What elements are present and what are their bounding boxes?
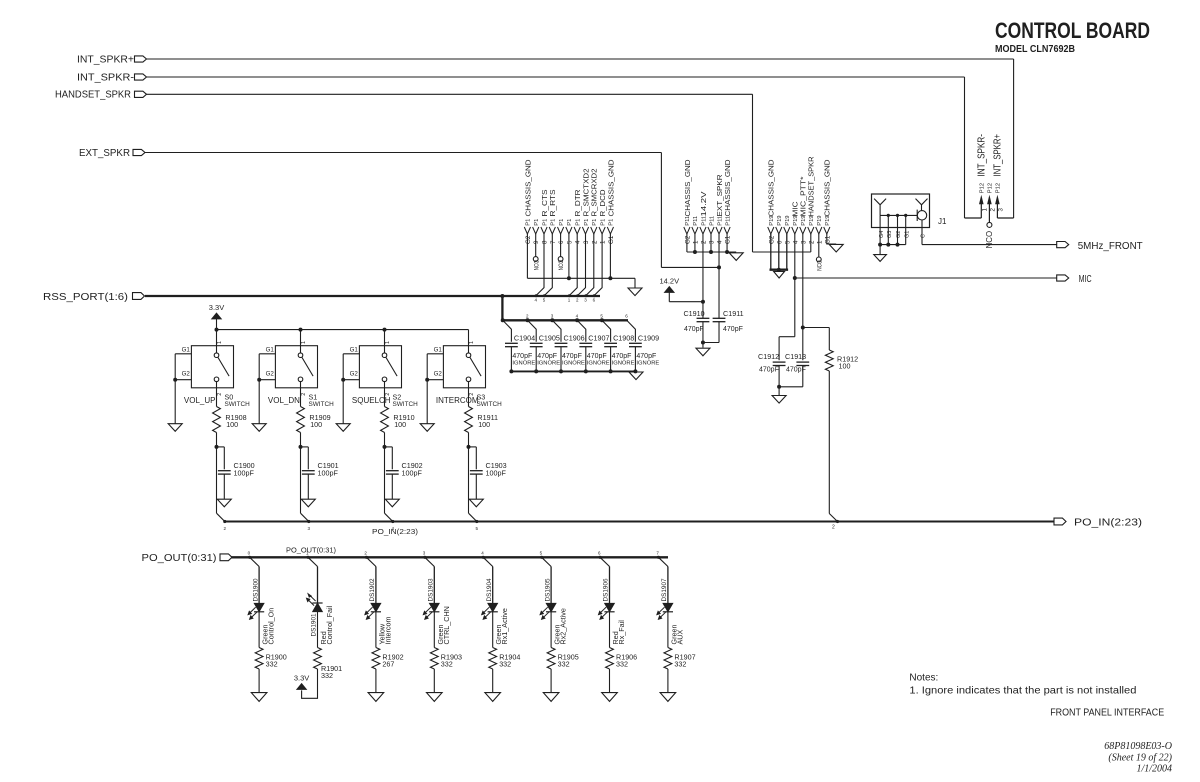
svg-text:P1: P1 xyxy=(584,219,590,226)
resistor R1907 332 xyxy=(664,648,696,669)
resistor R1912 100 xyxy=(803,328,858,514)
ground LED DS1906 xyxy=(602,693,618,702)
svg-text:SWITCH: SWITCH xyxy=(225,401,251,408)
svg-text:R_RTS: R_RTS xyxy=(548,190,557,217)
svg-text:NCO: NCO xyxy=(558,260,565,271)
svg-text:Intercom: Intercom xyxy=(383,617,392,645)
power 3.3V switch rail supply xyxy=(209,303,224,329)
svg-text:3: 3 xyxy=(583,240,590,244)
svg-text:G2: G2 xyxy=(896,231,902,238)
svg-text:8: 8 xyxy=(542,240,549,244)
ground P1 chassis xyxy=(628,288,642,296)
svg-text:C1906: C1906 xyxy=(564,334,585,343)
svg-text:2: 2 xyxy=(832,525,835,531)
P12 pin 1 bracket wire to INT_SPKR- xyxy=(965,217,982,219)
ground C1900 xyxy=(217,499,231,507)
svg-text:G2: G2 xyxy=(434,370,443,377)
port INT_SPKR- xyxy=(77,73,147,84)
LED DS1907 Green AUX xyxy=(657,567,685,648)
svg-text:G2: G2 xyxy=(525,235,532,244)
port RSS_PORT(1:6) xyxy=(43,292,145,303)
wire PO_OUT bus tap bit 0 xyxy=(248,551,260,567)
svg-text:100: 100 xyxy=(478,420,490,429)
P1 pin 1 wire (R_DCD) to RSS bus xyxy=(594,234,602,296)
svg-text:1. Ignore indicates that the p: 1. Ignore indicates that the part is not… xyxy=(909,685,1136,696)
LED DS1901 Red Control_Fail xyxy=(306,567,334,648)
svg-text:332: 332 xyxy=(558,660,570,669)
J1 pin G4 xyxy=(878,215,885,246)
svg-text:DS1906: DS1906 xyxy=(603,578,610,602)
svg-text:P1: P1 xyxy=(592,219,598,226)
wire HANDSET_SPKR vertical drop to P19 xyxy=(752,94,754,252)
svg-text:1: 1 xyxy=(692,240,699,244)
resistor R1908 100 xyxy=(213,407,247,449)
power 3.3V LED supply xyxy=(294,674,309,690)
port INT_SPKR+ xyxy=(77,55,147,66)
svg-text:NCO: NCO xyxy=(816,260,823,271)
J1 pin G2 xyxy=(896,214,903,247)
svg-text:1: 1 xyxy=(301,341,307,344)
ground C1901 xyxy=(301,499,315,507)
connector P11 pin 3 xyxy=(708,216,716,244)
capacitor C1903 100pF xyxy=(469,447,507,499)
P1 pin 4 wire (R_DTR) to RSS bus xyxy=(569,234,577,296)
svg-text:P1: P1 xyxy=(526,219,532,226)
P1 pin 3 wire (R_SMCTXD2) to RSS bus xyxy=(578,234,586,296)
svg-text:G2: G2 xyxy=(182,370,191,377)
RSS bus bit numbers xyxy=(535,298,596,303)
wire INT_SPKR+ vertical drop to P12 xyxy=(1013,59,1015,218)
ground switch S1 xyxy=(252,424,266,432)
connector P19 pin 2 (HANDSET_SPKR) xyxy=(807,156,816,244)
capacitor C1902 100pF xyxy=(385,447,423,499)
wire PO_OUT bus tap bit 6 xyxy=(598,551,610,567)
svg-text:267: 267 xyxy=(382,660,394,669)
ground LED DS1905 xyxy=(543,693,559,702)
bus PO_OUT(0:31) xyxy=(232,556,669,558)
wire switch S1 to PO_IN bus xyxy=(301,447,311,531)
ground C1904-C1909 xyxy=(629,372,643,380)
svg-text:(Sheet 19 of 22): (Sheet 19 of 22) xyxy=(1108,753,1172,764)
svg-text:CHASSIS_GND: CHASSIS_GND xyxy=(606,159,615,217)
svg-text:470pF: 470pF xyxy=(537,353,557,360)
J1 pin G1 xyxy=(904,214,910,245)
ground LED DS1902 xyxy=(368,693,384,702)
ground switch S0 xyxy=(168,424,182,432)
J1 pin C (5MHz_FRONT out) xyxy=(921,220,927,245)
svg-text:DS1900: DS1900 xyxy=(252,578,259,602)
J1 right antenna symbol xyxy=(916,199,928,211)
svg-text:DS1902: DS1902 xyxy=(369,578,376,602)
resistor R1903 332 xyxy=(430,648,462,669)
svg-text:1: 1 xyxy=(816,240,823,244)
svg-text:G1: G1 xyxy=(350,346,359,353)
svg-text:332: 332 xyxy=(674,660,686,669)
capacitor C1907 470pF (IGNORE) xyxy=(575,314,610,374)
P19 pin 1 NCO xyxy=(816,234,823,271)
connector P19 pin 1 xyxy=(816,215,824,244)
switch S2 SQUELCH xyxy=(341,330,418,424)
power 14.2V supply xyxy=(659,277,702,302)
svg-text:470pF: 470pF xyxy=(759,366,779,373)
svg-text:332: 332 xyxy=(266,660,278,669)
svg-text:P1: P1 xyxy=(559,219,565,226)
svg-text:CHASSIS_GND: CHASSIS_GND xyxy=(823,159,832,217)
wire R1906 to ground xyxy=(609,669,611,692)
svg-text:INT_SPKR+: INT_SPKR+ xyxy=(993,134,1004,177)
ground C1903 xyxy=(469,499,483,507)
svg-text:G1: G1 xyxy=(608,235,615,244)
port PO_IN(2:23) output xyxy=(1054,517,1142,529)
svg-text:3: 3 xyxy=(800,240,807,244)
P1 pin 2 wire (R_SMCRXD2) to RSS bus xyxy=(586,234,594,296)
svg-text:6: 6 xyxy=(776,240,783,244)
svg-text:2: 2 xyxy=(301,393,307,396)
port 5MHz_FRONT output xyxy=(1057,240,1144,252)
ground switch S3 xyxy=(420,424,434,432)
connector P1 pin 3 (R_SMCTXD2) xyxy=(581,169,590,245)
connector P19 pin 3 (MIC_PTT*) xyxy=(799,176,808,244)
svg-text:Notes:: Notes: xyxy=(909,673,938,684)
connector P11 pin G2 (CHASSIS_GND) xyxy=(683,159,692,244)
svg-text:1: 1 xyxy=(981,208,988,212)
wire 5MHz_FRONT xyxy=(922,244,1057,246)
connector P12 pin 2 xyxy=(987,183,996,222)
svg-text:Rx2_Active: Rx2_Active xyxy=(559,608,568,644)
svg-text:5: 5 xyxy=(566,240,573,244)
svg-text:C1907: C1907 xyxy=(588,334,609,343)
wire HANDSET_SPKR horizontal xyxy=(147,93,753,95)
svg-text:HANDSET_SPKR: HANDSET_SPKR xyxy=(807,156,816,216)
svg-text:CHASSIS_GND: CHASSIS_GND xyxy=(683,159,692,217)
svg-text:FRONT PANEL INTERFACE: FRONT PANEL INTERFACE xyxy=(1050,708,1164,719)
resistor R1901 332 xyxy=(314,648,343,681)
P1 pin 8 wire (R_CTS) to RSS bus xyxy=(536,234,544,296)
wire INT_SPKR- horizontal xyxy=(147,76,965,78)
wire 3.3V rail xyxy=(215,328,469,332)
connector P1 pin 5 xyxy=(566,219,574,244)
svg-text:5MHz_FRONT: 5MHz_FRONT xyxy=(1078,240,1144,252)
svg-text:100pF: 100pF xyxy=(318,468,339,477)
svg-text:1: 1 xyxy=(600,240,607,244)
P1 pin G2 wire xyxy=(526,234,528,278)
P19 pin 3 wire (MIC_PTT*) xyxy=(802,234,804,360)
svg-text:CTRL_CHN: CTRL_CHN xyxy=(442,606,451,644)
wire PO_OUT bus tap bit 2 xyxy=(364,551,376,567)
svg-text:4: 4 xyxy=(717,240,724,244)
svg-text:INT_SPKR+: INT_SPKR+ xyxy=(77,55,134,66)
wire switch S3 to PO_IN bus xyxy=(469,447,479,531)
svg-text:G2: G2 xyxy=(768,235,775,244)
connector P12 pin 3 (INT_SPKR+) xyxy=(993,134,1005,218)
svg-text:C1904: C1904 xyxy=(514,334,535,343)
svg-text:G2: G2 xyxy=(266,370,275,377)
svg-text:RSS_PORT(1:6): RSS_PORT(1:6) xyxy=(43,292,128,303)
P1 pin 7 wire (R_RTS) to RSS bus xyxy=(544,234,552,296)
svg-text:14.2V: 14.2V xyxy=(659,277,679,286)
P19 pin 2 wire (HANDSET_SPKR) xyxy=(810,234,812,252)
wire MIC to output xyxy=(795,277,1057,279)
wire PO_OUT bus tap bit 1 xyxy=(306,551,318,567)
svg-text:PO_IN(2:23): PO_IN(2:23) xyxy=(372,529,418,536)
svg-text:5: 5 xyxy=(784,240,791,244)
svg-text:C1908: C1908 xyxy=(613,334,634,343)
connector P11 pin 4 (EXT_SPKR) xyxy=(715,174,724,244)
svg-text:100: 100 xyxy=(226,420,238,429)
J1 internal bus line xyxy=(880,214,917,216)
wire R1905 to ground xyxy=(550,669,552,692)
capacitor C1908 470pF (IGNORE) xyxy=(600,314,635,374)
svg-text:INTERCOM: INTERCOM xyxy=(436,396,479,405)
LED DS1903 Green CTRL_CHN xyxy=(423,567,451,648)
ground J1 xyxy=(874,245,887,262)
svg-text:IGNORE: IGNORE xyxy=(537,361,560,367)
P1 pin 6 NCO xyxy=(558,234,565,270)
svg-text:470pF: 470pF xyxy=(512,353,532,360)
C1904-C1909 ground rail xyxy=(511,370,636,372)
svg-text:P19: P19 xyxy=(777,215,783,225)
svg-text:470pF: 470pF xyxy=(684,326,704,333)
P12 pin 3 bracket wire to INT_SPKR+ xyxy=(997,217,1013,219)
svg-text:2: 2 xyxy=(989,208,996,212)
svg-text:NCO: NCO xyxy=(985,231,994,249)
wire INT_SPKR- vertical drop to P12 xyxy=(964,77,966,218)
resistor R1900 332 xyxy=(255,648,287,669)
ground P19 G1 xyxy=(829,244,843,252)
capacitor C1906 470pF (IGNORE) xyxy=(550,314,585,374)
svg-text:2: 2 xyxy=(808,240,815,244)
wire R1903 to ground xyxy=(433,669,435,692)
capacitor C1912 470pF xyxy=(758,337,795,389)
wire switch S0 to PO_IN bus xyxy=(217,447,227,531)
svg-text:P12: P12 xyxy=(980,183,986,193)
wire R1900 to ground xyxy=(258,669,260,692)
svg-text:332: 332 xyxy=(441,660,453,669)
resistor R1905 332 xyxy=(547,648,579,669)
ground LED DS1900 xyxy=(251,693,267,702)
P12 pin 2 NCO xyxy=(985,222,994,248)
connector P11 pin 1 xyxy=(692,216,700,244)
P19 pin G1 wire xyxy=(827,234,836,244)
svg-text:INT_SPKR-: INT_SPKR- xyxy=(77,73,134,84)
svg-text:SQUELCH: SQUELCH xyxy=(352,396,391,405)
wire switch S2 to PO_IN bus xyxy=(385,447,395,531)
capacitor C1905 470pF (IGNORE) xyxy=(526,314,561,374)
port HANDSET_SPKR xyxy=(55,90,147,101)
P1 chassis ground line xyxy=(527,277,635,279)
svg-text:9: 9 xyxy=(533,240,540,244)
wire INT_SPKR+ horizontal xyxy=(147,58,1014,60)
wire PO_OUT bus tap bit 4 xyxy=(481,551,493,567)
svg-text:G1: G1 xyxy=(182,346,191,353)
svg-text:VOL_DN: VOL_DN xyxy=(268,396,300,405)
connector P1 pin 9 xyxy=(533,219,541,244)
P11 pin 2 wire (14.2V) xyxy=(702,234,704,318)
P19 ground pins G2/6/5 wires xyxy=(770,234,789,272)
svg-text:1: 1 xyxy=(385,341,391,344)
bus feed line for C1904-C1909 xyxy=(502,319,628,321)
svg-text:Control_On: Control_On xyxy=(267,608,276,645)
svg-text:470pF: 470pF xyxy=(636,353,656,360)
svg-text:G3: G3 xyxy=(887,231,893,238)
wire EXT_SPKR feed to P11 pin 4 xyxy=(661,266,719,268)
capacitor C1904 470pF (IGNORE) xyxy=(501,314,536,374)
svg-text:3: 3 xyxy=(708,240,715,244)
svg-text:P1: P1 xyxy=(576,219,582,226)
svg-text:PO_OUT(0:31): PO_OUT(0:31) xyxy=(286,548,336,555)
wire R1912 tap to PO_IN bus xyxy=(829,514,837,522)
svg-text:C1910: C1910 xyxy=(683,309,704,318)
svg-text:C: C xyxy=(921,234,927,238)
svg-text:2: 2 xyxy=(217,393,223,396)
svg-text:1/1/2004: 1/1/2004 xyxy=(1136,764,1172,775)
J1 jack circle element xyxy=(917,210,927,221)
bus RSS_PORT(1:6) xyxy=(145,295,600,297)
svg-text:CHASSIS_GND: CHASSIS_GND xyxy=(723,159,732,217)
capacitor C1900 100pF xyxy=(217,447,255,499)
svg-text:P12: P12 xyxy=(996,183,1002,193)
svg-text:332: 332 xyxy=(499,660,511,669)
svg-text:DS1905: DS1905 xyxy=(544,578,551,602)
connector P11 pin G1 (CHASSIS_GND) xyxy=(723,159,732,244)
svg-text:100pF: 100pF xyxy=(234,468,255,477)
port PO_OUT(0:31) xyxy=(142,553,233,564)
svg-text:SWITCH: SWITCH xyxy=(309,401,335,408)
resistor R1909 100 xyxy=(297,407,331,449)
svg-text:1: 1 xyxy=(469,341,475,344)
ground C1912/C1913 xyxy=(772,387,786,403)
connector P1 pin 2 (R_SMCRXD2) xyxy=(590,169,599,245)
connector P1 pin G1 (CHASSIS_GND) xyxy=(606,159,615,244)
svg-text:HANDSET_SPKR: HANDSET_SPKR xyxy=(55,90,131,101)
svg-text:7: 7 xyxy=(550,240,557,244)
ground P11 chassis xyxy=(729,253,743,261)
svg-text:G1: G1 xyxy=(824,235,831,244)
svg-text:C1913: C1913 xyxy=(785,352,806,361)
connector P19 pin 5 xyxy=(784,215,792,244)
svg-text:DS1903: DS1903 xyxy=(428,578,435,602)
svg-text:MODEL CLN7692B: MODEL CLN7692B xyxy=(995,44,1075,55)
svg-text:2: 2 xyxy=(591,240,598,244)
connector P19 pin 6 xyxy=(776,215,784,244)
svg-text:G1: G1 xyxy=(904,231,910,238)
switch S1 VOL_DN xyxy=(257,330,334,424)
svg-text:IGNORE: IGNORE xyxy=(587,361,610,367)
svg-text:VOL_UP: VOL_UP xyxy=(184,396,216,405)
ground LED DS1907 xyxy=(660,693,676,702)
connector P12 pin 1 (INT_SPKR-) xyxy=(977,134,989,218)
svg-text:3.3V: 3.3V xyxy=(209,303,224,312)
connector P1 pin 4 (R_DTR) xyxy=(573,189,582,244)
svg-text:68P81098E03-O: 68P81098E03-O xyxy=(1104,741,1172,752)
svg-text:IGNORE: IGNORE xyxy=(562,361,585,367)
bus branch down to C1904-C1909 row xyxy=(501,296,503,320)
ground LED DS1904 xyxy=(485,693,501,702)
J1 ground joining line xyxy=(880,244,906,246)
svg-text:SWITCH: SWITCH xyxy=(393,401,419,408)
connector P1 pin 1 (R_DCD) xyxy=(598,189,607,244)
wire HANDSET_SPKR feed to P19 pin 2 xyxy=(753,251,811,253)
svg-text:Control_Fail: Control_Fail xyxy=(325,605,334,644)
svg-text:C1912: C1912 xyxy=(758,352,779,361)
connector P19 pin 4 (MIC) xyxy=(791,201,800,244)
wire PO_OUT bus tap bit 5 xyxy=(540,551,552,567)
svg-text:6: 6 xyxy=(558,240,565,244)
svg-text:P1: P1 xyxy=(551,219,557,226)
LED DS1904 Green Rx1_Active xyxy=(481,567,509,648)
LED DS1900 Green Control_On xyxy=(248,567,276,648)
ground C1910/C1911 xyxy=(696,348,710,356)
svg-text:PO_OUT(0:31): PO_OUT(0:31) xyxy=(142,553,217,564)
switch S3 INTERCOM xyxy=(425,330,502,424)
connector P1 pin 8 (R_CTS) xyxy=(540,190,549,245)
svg-text:4: 4 xyxy=(575,240,582,244)
svg-text:100: 100 xyxy=(394,420,406,429)
svg-text:CHASSIS_GND: CHASSIS_GND xyxy=(523,159,532,217)
svg-text:Rx1_Active: Rx1_Active xyxy=(500,608,509,644)
svg-text:SWITCH: SWITCH xyxy=(477,401,503,408)
connector P11 pin 2 (14.2V) xyxy=(699,190,708,244)
svg-text:AUX: AUX xyxy=(675,630,684,645)
svg-text:PO_IN(2:23): PO_IN(2:23) xyxy=(1074,517,1142,529)
svg-text:IGNORE: IGNORE xyxy=(512,361,535,367)
svg-text:G2: G2 xyxy=(684,235,691,244)
svg-text:P1: P1 xyxy=(600,219,606,226)
svg-text:14.2V: 14.2V xyxy=(699,190,708,216)
svg-text:332: 332 xyxy=(616,660,628,669)
P1 pin G1 wire xyxy=(609,234,611,278)
svg-text:100: 100 xyxy=(839,362,851,371)
P11 pin 4 wire (EXT_SPKR) xyxy=(718,234,720,318)
svg-text:470pF: 470pF xyxy=(612,353,632,360)
svg-text:100: 100 xyxy=(310,420,322,429)
svg-text:IGNORE: IGNORE xyxy=(636,361,659,367)
P1 pin 5 wire to chassis ground line xyxy=(568,234,570,278)
svg-text:3.3V: 3.3V xyxy=(294,674,309,683)
capacitor C1901 100pF xyxy=(301,447,339,499)
svg-text:4: 4 xyxy=(792,240,799,244)
capacitor C1913 470pF xyxy=(779,352,809,387)
wire R1901 to 3.3V elbow xyxy=(302,669,318,698)
ground switch S2 xyxy=(336,424,350,432)
svg-text:G4: G4 xyxy=(879,231,885,238)
svg-text:100pF: 100pF xyxy=(402,468,423,477)
P19 pin 4 wire (MIC) xyxy=(794,234,796,337)
LED DS1906 Red Rx_Fail xyxy=(598,567,626,648)
svg-text:C1909: C1909 xyxy=(638,334,659,343)
resistor R1910 100 xyxy=(381,407,415,449)
ground C1902 xyxy=(385,499,399,507)
svg-text:1: 1 xyxy=(217,341,223,344)
svg-text:P1: P1 xyxy=(609,219,615,226)
svg-text:G1: G1 xyxy=(725,235,732,244)
svg-text:3: 3 xyxy=(997,208,1004,212)
ground P19 chassis triangle xyxy=(774,272,785,279)
connector P1 pin G2 (CHASSIS_GND) xyxy=(523,159,532,244)
svg-text:G2: G2 xyxy=(350,370,359,377)
svg-text:P12: P12 xyxy=(988,183,994,193)
connector P1 pin 6 xyxy=(558,219,566,244)
svg-text:CONTROL BOARD: CONTROL BOARD xyxy=(995,18,1150,43)
port MIC output xyxy=(1057,273,1092,285)
switch S0 VOL_UP xyxy=(173,330,250,424)
resistor R1904 332 xyxy=(489,648,521,669)
svg-text:CHASSIS_GND: CHASSIS_GND xyxy=(767,159,776,217)
wire PO_OUT bus tap bit 3 xyxy=(423,551,435,567)
J1 left antenna symbol xyxy=(874,199,886,216)
svg-text:P1: P1 xyxy=(567,219,573,226)
port EXT_SPKR xyxy=(79,148,145,159)
